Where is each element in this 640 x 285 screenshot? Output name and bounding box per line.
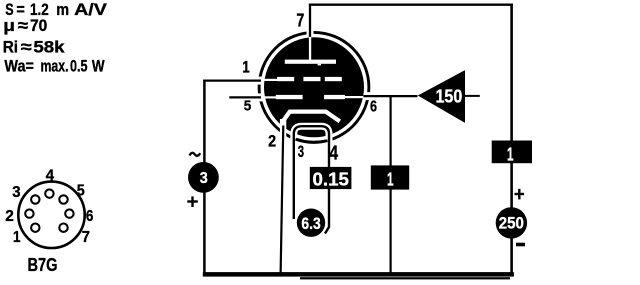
svg-text:58k: 58k	[33, 37, 65, 56]
svg-text:Wa=: Wa=	[4, 56, 34, 75]
svg-text:7: 7	[296, 9, 304, 30]
svg-text:1: 1	[387, 169, 394, 189]
svg-text:6.3: 6.3	[301, 215, 320, 233]
svg-text:3: 3	[298, 142, 304, 161]
svg-text:6: 6	[86, 208, 94, 225]
svg-text:A/V: A/V	[74, 0, 108, 19]
svg-text:6: 6	[370, 99, 377, 116]
svg-text:70: 70	[30, 16, 47, 35]
svg-text:max.: max.	[41, 56, 69, 75]
svg-text:≈: ≈	[21, 37, 32, 56]
svg-text:W: W	[92, 56, 105, 75]
svg-text:Ri: Ri	[3, 37, 18, 56]
svg-text:2: 2	[5, 208, 14, 225]
svg-text:0.5: 0.5	[70, 56, 88, 75]
svg-text:4: 4	[329, 142, 338, 164]
svg-text:4: 4	[46, 168, 55, 185]
svg-text:5: 5	[244, 98, 252, 115]
svg-text:250: 250	[499, 214, 524, 232]
svg-text:2: 2	[268, 132, 276, 150]
svg-text:3: 3	[12, 184, 21, 201]
svg-text:m: m	[56, 0, 69, 19]
svg-text:1: 1	[242, 58, 250, 76]
svg-text:150: 150	[436, 86, 463, 107]
svg-text:≈: ≈	[18, 16, 28, 35]
svg-text:0.15: 0.15	[313, 169, 349, 189]
svg-text:1: 1	[507, 144, 514, 164]
svg-text:7: 7	[82, 229, 90, 246]
svg-text:1: 1	[13, 229, 21, 246]
svg-text:B7G: B7G	[28, 254, 58, 275]
svg-text:3: 3	[200, 170, 208, 187]
svg-text:5: 5	[77, 183, 85, 200]
svg-text:μ: μ	[3, 16, 15, 35]
